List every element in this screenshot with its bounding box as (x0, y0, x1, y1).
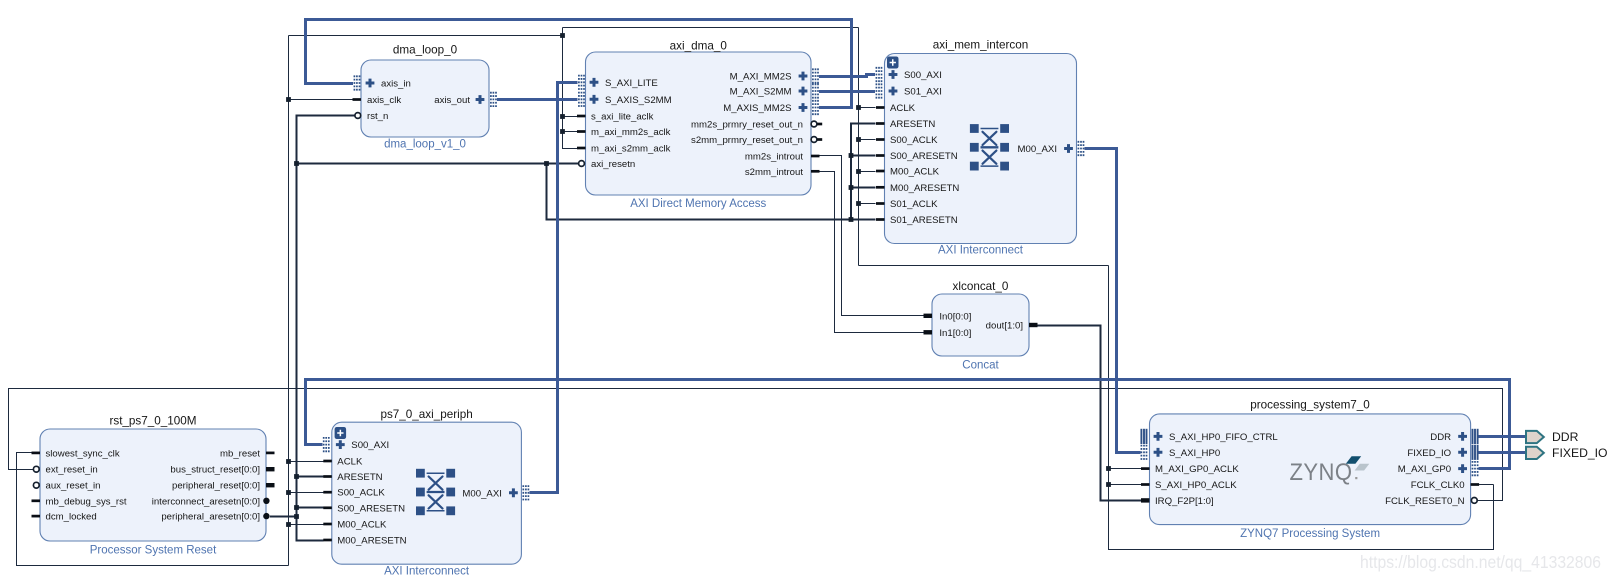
block xlconcat_0 (Concat) (924, 280, 1038, 372)
svg-text:ARESETN: ARESETN (890, 119, 935, 130)
block processing_system7_0 (ZYNQ7 Processing System) (1141, 399, 1479, 541)
wire: M_AXIS_MM2S of axi_dma_0 to axis_in of dma_loop_0 (top route) (306, 20, 852, 108)
wire: clock net top horizontal to axi_dma column (563, 27, 859, 29)
wire: clock net vertical along axi_mem_intercon with stubs (858, 28, 860, 266)
wire: clock net FCLK_CLK0 stub from processing_system7_0 (1479, 484, 1494, 486)
wire: M00_AXI of ps7_0_axi_periph to S_AXI_LITE of axi_dma_0 (530, 83, 578, 493)
svg-text:FCLK_CLK0: FCLK_CLK0 (1411, 480, 1465, 491)
svg-text:s2mm_introut: s2mm_introut (745, 167, 803, 178)
svg-text:ZYNQ: ZYNQ (1290, 459, 1353, 486)
svg-text:In1[0:0]: In1[0:0] (939, 328, 971, 339)
svg-text:FIXED_IO: FIXED_IO (1407, 448, 1451, 459)
wire: M_AXI_S2MM of axi_dma_0 to S01_AXI of axi_mem_intercon (819, 90, 875, 93)
svg-text:M_AXIS_MM2S: M_AXIS_MM2S (723, 103, 791, 114)
svg-text:s_axi_lite_aclk: s_axi_lite_aclk (591, 112, 654, 123)
wire: clock net left vertical x=288.5 with stubs (288, 36, 290, 566)
svg-text:dout[1:0]: dout[1:0] (986, 321, 1023, 332)
junctions: reset net (294, 161, 299, 166)
block axi_dma_0 (AXI Direct Memory Access) (577, 40, 822, 211)
svg-text:M00_AXI: M00_AXI (1018, 144, 1057, 155)
svg-text:S_AXI_HP0_FIFO_CTRL: S_AXI_HP0_FIFO_CTRL (1169, 432, 1278, 443)
svg-text:rst_ps7_0_100M: rst_ps7_0_100M (109, 415, 196, 428)
svg-text:axis_clk: axis_clk (367, 95, 401, 106)
svg-text:S00_AXI: S00_AXI (351, 440, 389, 451)
wire: reset net drop from junction x=546.3 and run to axi_mem_intercon (547, 164, 876, 220)
svg-text:axi_mem_intercon: axi_mem_intercon (933, 39, 1029, 52)
svg-text:Processor System Reset: Processor System Reset (90, 545, 217, 557)
wire: clock net bottom run to slowest_sync_clk (17, 453, 289, 566)
svg-text:S_AXI_LITE: S_AXI_LITE (605, 78, 658, 89)
block axi_mem_intercon (AXI Interconnect) (876, 39, 1084, 257)
wire: reset net stubs to ps7_0_axi_periph ARESETN / S00_ARESETN (297, 477, 324, 508)
svg-text:M_AXI_GP0: M_AXI_GP0 (1398, 464, 1451, 475)
wire: reset net from rst_n of dma_loop_0 down to trunk (297, 116, 356, 164)
wire: M_AXI_MM2S of axi_dma_0 to S00_AXI of axi_mem_intercon (819, 75, 875, 77)
svg-text:M_AXI_GP0_ACLK: M_AXI_GP0_ACLK (1155, 464, 1239, 475)
wire: mm2s_introut to xlconcat In0 (820, 156, 925, 316)
svg-text:ACLK: ACLK (890, 103, 916, 114)
svg-text:S00_AXI: S00_AXI (904, 70, 942, 81)
svg-text:S00_ARESETN: S00_ARESETN (890, 151, 958, 162)
wire: clock net vertical feeding axi_dma clock pins (563, 28, 578, 149)
svg-text:AXI Direct Memory Access: AXI Direct Memory Access (630, 198, 766, 210)
wire: axis_out of dma_loop_0 to S_AXIS_S2MM of axi_dma_0 (497, 98, 578, 101)
external port FIXED_IO (1526, 446, 1608, 460)
wire: clock net stub to M_AXI_GP0_ACLK (1109, 468, 1142, 470)
svg-text:m_axi_mm2s_aclk: m_axi_mm2s_aclk (591, 127, 671, 138)
svg-text:AXI Interconnect: AXI Interconnect (384, 566, 470, 578)
svg-text:S_AXI_HP0: S_AXI_HP0 (1169, 448, 1220, 459)
svg-text:S00_ACLK: S00_ACLK (337, 488, 385, 499)
svg-text:S_AXIS_S2MM: S_AXIS_S2MM (605, 95, 672, 106)
svg-text:IRQ_F2P[1:0]: IRQ_F2P[1:0] (1155, 496, 1214, 507)
svg-text:ARESETN: ARESETN (337, 472, 382, 483)
svg-text:aux_reset_in: aux_reset_in (46, 481, 101, 492)
svg-text:axis_in: axis_in (381, 79, 411, 90)
svg-text:S00_ARESETN: S00_ARESETN (337, 503, 405, 514)
svg-text:rst_n: rst_n (367, 111, 388, 122)
wire: xlconcat dout to IRQ_F2P of processing_system7_0 (1037, 326, 1141, 501)
wire: clock net stub to S_AXI_HP0_ACLK (1109, 484, 1142, 486)
svg-text:FCLK_RESET0_N: FCLK_RESET0_N (1385, 496, 1465, 507)
wire: M_AXI_GP0 of processing_system7_0 to S00_AXI of ps7_0_axi_periph (306, 380, 1510, 469)
svg-text:Concat: Concat (962, 360, 999, 372)
svg-text:In0[0:0]: In0[0:0] (939, 311, 971, 322)
svg-text:DDR: DDR (1430, 432, 1451, 443)
svg-text:mm2s_prmry_reset_out_n: mm2s_prmry_reset_out_n (691, 120, 803, 131)
svg-text:dma_loop_v1_0: dma_loop_v1_0 (384, 139, 466, 151)
wire: M00_AXI of axi_mem_intercon to S_AXI_HP0 of processing_system7_0 (1085, 149, 1141, 453)
svg-text:axi_resetn: axi_resetn (591, 159, 635, 170)
external port DDR (1526, 430, 1579, 444)
svg-text:peripheral_aresetn[0:0]: peripheral_aresetn[0:0] (161, 512, 260, 523)
svg-text:FIXED_IO: FIXED_IO (1552, 446, 1608, 460)
svg-text:mm2s_introut: mm2s_introut (745, 152, 803, 163)
wire: reset net horizontal y=163.5 to axi_resetn of axi_dma_0 (297, 163, 579, 165)
svg-text:m_axi_s2mm_aclk: m_axi_s2mm_aclk (591, 144, 671, 155)
svg-text:ZYNQ7 Processing System: ZYNQ7 Processing System (1240, 528, 1380, 540)
svg-text:S01_ARESETN: S01_ARESETN (890, 215, 958, 226)
svg-text:ps7_0_axi_periph: ps7_0_axi_periph (380, 408, 472, 421)
svg-text:M00_ARESETN: M00_ARESETN (890, 183, 959, 194)
wire: DDR to external port (1479, 435, 1527, 438)
svg-text:processing_system7_0: processing_system7_0 (1250, 399, 1370, 412)
svg-text:AXI Interconnect: AXI Interconnect (938, 245, 1024, 257)
svg-text:M00_AXI: M00_AXI (462, 488, 501, 499)
svg-text:peripheral_reset[0:0]: peripheral_reset[0:0] (172, 481, 260, 492)
wire: reset net feed from peripheral_aresetn pin (270, 516, 297, 518)
block ps7_0_axi_periph (AXI Interconnect) (323, 408, 528, 578)
svg-text:xlconcat_0: xlconcat_0 (953, 280, 1009, 293)
wire: s2mm_introut to xlconcat In1 (820, 172, 925, 333)
svg-text:ACLK: ACLK (337, 457, 363, 468)
svg-text:S01_AXI: S01_AXI (904, 87, 942, 98)
svg-text:slowest_sync_clk: slowest_sync_clk (46, 448, 120, 459)
svg-text:M00_ACLK: M00_ACLK (890, 167, 940, 178)
svg-text:axis_out: axis_out (434, 95, 470, 106)
svg-text:mb_debug_sys_rst: mb_debug_sys_rst (46, 496, 127, 507)
wire: clock net right loop (down, along bottom, up left of ps7) (1109, 266, 1494, 550)
block dma_loop_0 (dma_loop_v1_0 custom IP) (353, 44, 497, 151)
svg-text:dcm_locked: dcm_locked (46, 512, 97, 523)
wire: reset net trunk vertical x=296.5 down to M00_ARESETN of ps7_0_axi_periph (297, 164, 324, 541)
svg-text:bus_struct_reset[0:0]: bus_struct_reset[0:0] (170, 465, 260, 476)
svg-text:M_AXI_MM2S: M_AXI_MM2S (730, 72, 792, 83)
wire: clock net horizontal segment y=35.5 to left column (289, 35, 563, 37)
svg-text:M_AXI_S2MM: M_AXI_S2MM (730, 87, 792, 98)
svg-text:S_AXI_HP0_ACLK: S_AXI_HP0_ACLK (1155, 480, 1237, 491)
wire: FCLK_RESET0_N to ext_reset_in of rst_ps7_0_100M (9, 389, 1503, 501)
svg-text:DDR: DDR (1552, 430, 1579, 444)
wire: reset net vertical along axi_mem_intercon with stubs (851, 124, 876, 220)
svg-text:S01_ACLK: S01_ACLK (890, 199, 938, 210)
svg-text:https://blog.csdn.net/qq_41332: https://blog.csdn.net/qq_41332806 (1360, 552, 1601, 573)
svg-text:S00_ACLK: S00_ACLK (890, 135, 938, 146)
wire: clock net horizontal mid segment to axi_mem_intercon column (859, 265, 1109, 267)
svg-text:M00_ACLK: M00_ACLK (337, 520, 387, 531)
svg-text:mb_reset: mb_reset (220, 448, 260, 459)
svg-text:ext_reset_in: ext_reset_in (46, 465, 98, 476)
junctions: clock net (560, 33, 565, 38)
svg-text:interconnect_aresetn[0:0]: interconnect_aresetn[0:0] (152, 496, 260, 507)
block rst_ps7_0_100M (Processor System Reset) (32, 415, 275, 557)
svg-text:dma_loop_0: dma_loop_0 (393, 44, 458, 57)
wire: FIXED_IO to external port (1479, 451, 1527, 454)
svg-text:M00_ARESETN: M00_ARESETN (337, 536, 406, 547)
svg-text:s2mm_prmry_reset_out_n: s2mm_prmry_reset_out_n (691, 135, 803, 146)
svg-text:axi_dma_0: axi_dma_0 (670, 40, 728, 53)
